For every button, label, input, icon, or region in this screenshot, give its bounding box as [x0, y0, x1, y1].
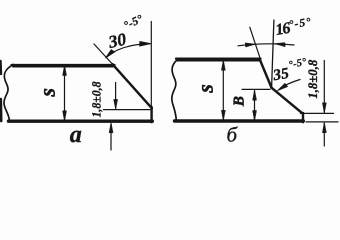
dimension B b line: [254, 91, 256, 121]
plate b steep bevel: [260, 59, 272, 88]
angle extension line a: [150, 22, 152, 107]
svg-text:35: 35: [271, 65, 290, 85]
plate a root face: [150, 107, 152, 122]
35 degree leader: [280, 80, 300, 89]
svg-text:В: В: [232, 96, 248, 107]
dimension S a bottom arrowhead: [63, 111, 67, 122]
label S a: [42, 88, 59, 97]
label B b: [232, 96, 248, 107]
dimension 1.8 b upper arrow: [323, 61, 325, 113]
plate b bottom edge: [175, 119, 304, 122]
label 1.8 a: [90, 81, 104, 118]
steep bevel extension line b: [250, 27, 262, 62]
plate b break line: [172, 59, 179, 121]
svg-text:1,8±0,8: 1,8±0,8: [90, 81, 104, 118]
root top extension a: [104, 109, 150, 111]
16 degree arc: [238, 44, 294, 46]
35 leader arrowhead: [277, 83, 288, 91]
plate a top edge: [12, 65, 115, 66]
16 arc left arrowhead: [245, 43, 255, 47]
svg-text:1,8±0,8: 1,8±0,8: [305, 59, 320, 98]
plate a bevel: [113, 64, 152, 108]
30 degree arc: [107, 44, 151, 57]
knee extension line b: [242, 88, 270, 90]
svg-text:S: S: [200, 84, 217, 93]
root top extension b: [301, 112, 334, 114]
plate b top edge: [176, 59, 261, 61]
30 arc right arrowhead: [140, 41, 151, 46]
dimension 1.8 b lower arrow: [323, 123, 325, 146]
label a: [70, 122, 82, 148]
bottom extension b: [306, 121, 338, 123]
svg-text:а: а: [70, 122, 82, 148]
16 arc right arrowhead: [275, 43, 286, 47]
label S b: [200, 84, 217, 93]
dimension S a line: [64, 66, 66, 120]
label 1.8 b: [305, 59, 320, 98]
label 30 degrees: [106, 13, 145, 52]
svg-text:б: б: [227, 122, 239, 146]
dimension S a top arrowhead: [63, 65, 67, 76]
plate a break line: [4, 64, 14, 121]
scan edge artifact top: [0, 61, 2, 74]
plate a bottom edge: [9, 119, 153, 122]
label b: [227, 122, 239, 146]
plate b root face: [302, 113, 304, 122]
30 arc left arrowhead: [105, 50, 115, 59]
dimension B b top arrowhead: [253, 90, 257, 101]
dimension S b line: [222, 61, 224, 121]
scan edge artifact bottom: [0, 99, 3, 121]
label 35 degrees: [271, 57, 308, 85]
vertical reference line b: [272, 20, 274, 87]
dimension S b top arrowhead: [221, 60, 225, 71]
dimension 1.8 a upper arrow: [115, 83, 117, 109]
bevel extension line a: [94, 44, 113, 65]
dimension S b bottom arrowhead: [221, 110, 225, 121]
dimension 1.8 a lower arrow: [110, 124, 112, 151]
svg-text:S: S: [42, 88, 59, 97]
dimension B b bottom arrowhead: [253, 111, 257, 122]
plate b lower bevel: [271, 88, 303, 114]
label 16 degrees: [274, 16, 312, 39]
